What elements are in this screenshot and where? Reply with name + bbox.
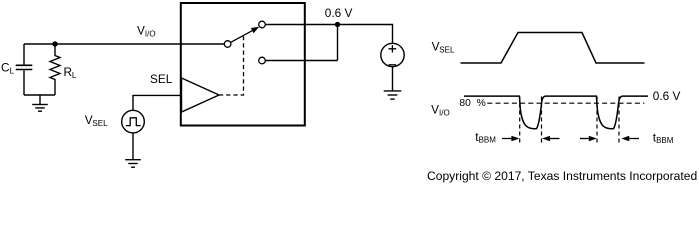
ground (V_SEL)	[125, 160, 141, 168]
dashed marker line 1	[519, 97, 521, 143]
svg-text:BBM: BBM	[479, 136, 497, 145]
V_SEL waveform trapezoid	[461, 33, 645, 64]
svg-text:SEL: SEL	[150, 72, 173, 86]
wire bottom throw	[265, 60, 337, 62]
wire bottom RC	[24, 94, 55, 96]
dashed 80% level line	[487, 102, 644, 104]
node junction dot left	[52, 41, 57, 46]
switch throw bottom circle	[259, 57, 266, 64]
svg-text:V: V	[137, 23, 145, 37]
wire V_I/O top horizontal	[24, 43, 224, 45]
V_I/O waveform with BBM dips	[464, 96, 648, 129]
dashed marker line 3	[596, 97, 598, 143]
node junction dot 0.6V	[335, 22, 340, 27]
svg-text:80: 80	[459, 98, 471, 109]
wire source to ground	[392, 67, 394, 91]
arrow 2 left-pointing	[550, 138, 560, 140]
svg-text:BBM: BBM	[656, 136, 674, 145]
resistor RL	[50, 47, 60, 96]
wire SEL	[133, 95, 181, 110]
DUT box U1	[181, 3, 305, 126]
wire source to ground	[132, 133, 134, 160]
dashed marker line 2	[541, 97, 543, 143]
svg-text:%: %	[477, 98, 486, 109]
capacitor CL	[16, 44, 33, 95]
dashed marker line 4	[618, 97, 620, 143]
arrow 4 left-pointing	[630, 138, 640, 140]
svg-text:0.6 V: 0.6 V	[653, 89, 681, 103]
voltage source V1 0.6V	[381, 43, 404, 66]
svg-text:0.6 V: 0.6 V	[325, 6, 353, 20]
svg-text:L: L	[72, 71, 77, 80]
svg-text:SEL: SEL	[92, 119, 108, 128]
switch pole circle	[224, 41, 231, 48]
V_SEL pulse source	[122, 110, 145, 133]
arrow 3 right-pointing	[580, 138, 590, 140]
wire top throw to source	[265, 25, 392, 44]
switch throw top circle	[259, 21, 266, 28]
switch blade wire	[231, 31, 253, 43]
svg-text:SEL: SEL	[439, 46, 455, 55]
switch blade arrowhead	[251, 27, 259, 33]
dashed control line	[219, 35, 244, 95]
ground (RC network)	[32, 95, 48, 111]
svg-text:Copyright © 2017, Texas Instru: Copyright © 2017, Texas Instruments Inco…	[427, 169, 697, 183]
ground (0.6V source)	[384, 91, 402, 99]
svg-text:I/O: I/O	[439, 108, 450, 117]
buffer amp inside box	[182, 78, 220, 112]
svg-text:R: R	[64, 65, 73, 79]
arrow 1 right-pointing	[502, 138, 512, 140]
wire junction down	[337, 25, 339, 61]
svg-text:I/O: I/O	[145, 29, 156, 38]
svg-text:L: L	[10, 67, 15, 76]
svg-text:V: V	[431, 102, 439, 116]
